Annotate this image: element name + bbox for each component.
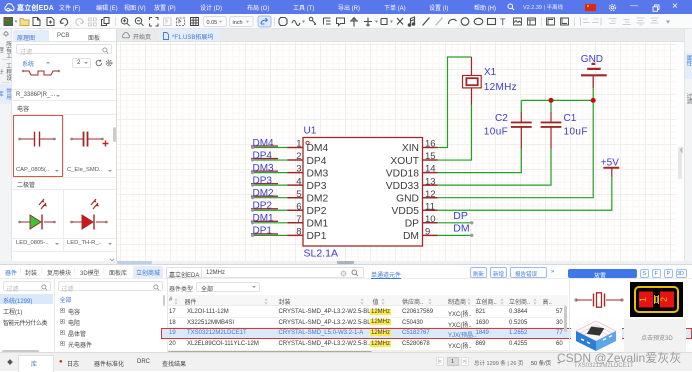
svg-text:DP4: DP4	[307, 156, 327, 167]
svg-text:DP: DP	[453, 210, 468, 222]
svg-text:4: 4	[296, 176, 301, 187]
svg-text:DM: DM	[453, 222, 469, 234]
svg-text:C2: C2	[495, 113, 508, 124]
svg-text:DP3: DP3	[307, 181, 327, 192]
svg-text:DM: DM	[403, 231, 419, 242]
svg-text:DP3: DP3	[253, 175, 273, 186]
svg-text:DM2: DM2	[307, 193, 329, 204]
svg-text:15: 15	[425, 151, 436, 162]
svg-text:DP2: DP2	[307, 206, 327, 217]
svg-text:13: 13	[425, 176, 436, 187]
svg-text:DP1: DP1	[307, 231, 327, 242]
svg-text:DM1: DM1	[253, 213, 275, 224]
svg-text:inch: inch	[233, 20, 243, 26]
svg-text:GND: GND	[581, 54, 603, 65]
svg-text:DM1: DM1	[307, 219, 329, 230]
svg-text:DM3: DM3	[307, 168, 329, 179]
svg-text:DP4: DP4	[253, 150, 273, 161]
svg-text:SL2.1A: SL2.1A	[304, 248, 338, 260]
svg-text:5: 5	[296, 189, 301, 200]
svg-text:DM3: DM3	[253, 163, 275, 174]
svg-text:10uF: 10uF	[484, 127, 508, 138]
svg-text:11: 11	[425, 201, 435, 212]
svg-text:DM4: DM4	[253, 138, 275, 149]
svg-text:X1: X1	[484, 67, 497, 78]
svg-text:2: 2	[659, 297, 669, 302]
svg-text:XOUT: XOUT	[390, 156, 419, 167]
svg-text:DP1: DP1	[253, 226, 273, 237]
svg-text:+5V: +5V	[601, 158, 619, 169]
svg-text:1: 1	[638, 297, 648, 302]
svg-text:10: 10	[425, 214, 436, 225]
svg-text:2: 2	[296, 151, 301, 162]
svg-text:XIN: XIN	[402, 143, 419, 154]
svg-text:8: 8	[296, 226, 301, 237]
svg-text:1: 1	[296, 139, 301, 150]
svg-text:12: 12	[425, 189, 436, 200]
svg-text:12MHz: 12MHz	[484, 82, 517, 93]
svg-text:U1: U1	[304, 126, 317, 137]
svg-text:3: 3	[296, 164, 301, 175]
svg-text:VDD33: VDD33	[386, 181, 419, 192]
svg-text:16: 16	[425, 139, 436, 150]
svg-text:10uF: 10uF	[564, 127, 588, 138]
svg-text:7: 7	[296, 214, 301, 225]
svg-text:DP2: DP2	[253, 201, 273, 212]
svg-text:VDD18: VDD18	[386, 168, 419, 179]
svg-text:DM4: DM4	[307, 143, 329, 154]
svg-text:T: T	[500, 17, 506, 27]
svg-text:9: 9	[425, 226, 430, 237]
svg-text:14: 14	[425, 164, 436, 175]
svg-text:VDD5: VDD5	[392, 206, 420, 217]
svg-text:DM2: DM2	[253, 188, 275, 199]
svg-text:0.05: 0.05	[207, 20, 218, 26]
svg-text:C1: C1	[564, 113, 577, 124]
svg-text:GND: GND	[396, 193, 419, 204]
svg-text:DP: DP	[405, 219, 419, 230]
svg-text:6: 6	[296, 201, 301, 212]
